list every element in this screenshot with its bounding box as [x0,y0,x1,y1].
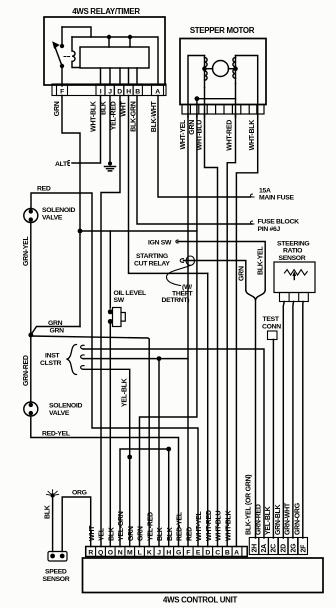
inst hook 2 [81,355,84,359]
svg-text:GRN: GRN [54,101,61,116]
cell dividers main strip [86,547,242,557]
fuse block hook [251,221,254,224]
svg-text:GRN: GRN [128,526,135,541]
svg-text:J: J [157,550,161,557]
4WS relay/timer box [44,17,165,85]
node GRN junction left [28,333,33,338]
svg-text:VALVE: VALVE [42,215,63,222]
svg-text:PIN #6J: PIN #6J [258,226,281,233]
svg-text:RED: RED [37,186,51,193]
svg-text:BLK: BLK [45,505,52,519]
wire pin D [207,273,209,546]
rotated wire labels [23,101,302,541]
svg-text:GRN-ORG: GRN-ORG [295,502,302,535]
svg-text:BLK-YEL: BLK-YEL [258,246,265,275]
wire GRN-RED [30,335,32,402]
svg-text:R: R [88,550,93,557]
svg-text:GRN: GRN [138,526,145,541]
motor rotor [213,61,229,77]
svg-text:H: H [166,550,171,557]
wire IGN SW BLK-YEL [178,242,265,291]
node M tap [127,455,132,460]
wire pin H WHT to D [129,96,208,274]
node switch bottom [60,64,64,68]
svg-text:2G: 2G [290,543,297,553]
wire coil right bottom GRN [197,84,236,118]
svg-text:A: A [234,550,239,557]
svg-text:SENSOR: SENSOR [279,255,306,262]
svg-text:WHT-BLK: WHT-BLK [91,101,98,132]
svg-text:F: F [60,89,64,96]
node rail2-tap2 [128,35,132,39]
wire pin A BLK-WHT to 15A fuse [158,96,251,198]
wire coil left top to WHT-YEL [188,56,205,118]
svg-text:SPEED: SPEED [45,569,67,576]
svg-text:WHT-YEL: WHT-YEL [196,510,203,541]
solenoid valve 1 [24,209,38,223]
svg-text:2F: 2F [300,544,307,553]
control unit 2x cells [249,538,307,555]
15A fuse hook [251,194,254,197]
inst hook 1 [81,345,84,349]
node H tap [166,447,171,452]
node rail2-tap1 [107,35,111,39]
wire WHT-RED lead [235,99,237,117]
alternator connector [68,161,70,166]
wire ORG to pin R [62,497,90,552]
svg-text:TEST: TEST [263,316,280,323]
svg-text:CONN: CONN [262,324,281,331]
test connector [268,331,278,340]
svg-text:IGN SW: IGN SW [148,240,172,247]
svg-text:G: G [176,550,181,557]
svg-text:SW: SW [114,297,125,304]
wire rail2 [72,37,158,84]
svg-text:YEL-RED: YEL-RED [111,101,118,130]
svg-text:OIL LEVEL: OIL LEVEL [114,290,146,297]
svg-text:YEL-GRN: YEL-GRN [118,511,125,541]
starting cut relay hook [167,256,195,286]
svg-text:RED-YEL: RED-YEL [42,431,70,438]
svg-text:GRN: GRN [189,120,196,135]
wire inst line3 to M [83,369,130,546]
dashed link switch-coil [64,56,70,58]
svg-text:GRN: GRN [48,320,63,327]
svg-text:STEPPER MOTOR: STEPPER MOTOR [190,26,255,35]
wire sensor to 2F [302,302,304,539]
svg-text:WHT-BLK: WHT-BLK [249,120,256,151]
svg-text:WHT-BLU: WHT-BLU [216,510,223,541]
svg-text:BLK: BLK [101,101,108,115]
svg-text:GRN-YEL: GRN-YEL [23,235,30,266]
svg-text:A: A [155,89,160,96]
svg-text:BLK-GRN: BLK-GRN [131,101,138,132]
svg-text:L: L [138,550,142,557]
bottom pin letters [88,550,239,557]
node switch top [60,44,64,48]
stepper coil left [202,56,212,88]
svg-text:K: K [147,550,152,557]
svg-text:YEL-RED: YEL-RED [147,512,154,541]
svg-text:WHT: WHT [89,525,96,541]
wire rail1 [62,27,91,37]
wire WHT-BLU to pin C [205,114,218,547]
svg-text:MAIN FUSE: MAIN FUSE [259,195,294,202]
wire pin D YEL-RED jog [101,96,120,547]
svg-text:N: N [118,550,123,557]
svg-text:O: O [108,550,113,557]
wire coil left bottom WHT-BLU [204,88,206,118]
svg-text:BLK-WHT: BLK-WHT [151,101,158,133]
wire test conn to 2C [272,340,274,539]
wire RED rail [31,193,198,547]
connector strip relay [52,84,166,96]
wire START RELAY GRN [184,261,246,291]
wire timer leads to pins [101,68,138,84]
relay coil L1 [72,37,80,68]
svg-text:15A: 15A [259,188,271,195]
wire N H stub [120,449,169,547]
stepper coil right [229,56,238,84]
wire GRN-YEL [30,223,32,336]
svg-text:2A: 2A [261,544,268,553]
svg-text:WHT-RED: WHT-RED [227,120,234,151]
wire pin F GRN [62,96,80,327]
svg-text:Q: Q [98,550,103,557]
wire GRN to oil level sw [109,231,111,308]
wire coil right top to WHT-BLK [236,56,258,118]
wire pin J [158,359,160,547]
svg-text:CLSTR: CLSTR [40,360,62,367]
svg-text:2D: 2D [281,544,288,553]
relay switch contacts [53,27,62,86]
svg-text:YEL-BLK: YEL-BLK [265,506,272,535]
wire WHT-YEL to pin F [187,114,189,547]
connector strip stepper [182,105,264,115]
svg-text:STARTING: STARTING [136,253,168,260]
potentiometer [285,270,308,276]
svg-text:YEL-BLK: YEL-BLK [122,378,129,407]
wire WHT-RED to pin B [227,114,235,547]
svg-text:2C: 2C [271,544,278,553]
wire sensor to 2D [283,302,284,539]
svg-text:B: B [225,550,230,557]
inst hook 3 [81,366,84,370]
svg-text:C: C [215,550,220,557]
oil level switch [108,308,126,327]
svg-text:WHT-BLU: WHT-BLU [197,120,204,151]
wire GRN bus y233 [80,230,197,232]
wire sensor to 2G [292,302,295,539]
svg-text:RATIO: RATIO [283,248,302,255]
wire WHT-BLK to pin A [236,114,257,547]
svg-text:D: D [205,550,210,557]
connector strip control unit [86,547,248,557]
svg-text:SENSOR: SENSOR [43,576,70,583]
wire pin B BLK-GRN to fuse block [137,96,252,225]
svg-text:WHT-BLK: WHT-BLK [225,510,232,541]
wire inst line1 to 2A [83,349,264,538]
svg-text:DETRNT): DETRNT) [162,297,190,304]
svg-text:D: D [117,89,122,96]
wire GRN stepper to pin L [140,114,197,547]
inst cluster brace [67,345,77,375]
svg-text:RED-YEL: RED-YEL [177,511,184,541]
svg-text:SOLENOID: SOLENOID [49,403,82,410]
svg-text:BLK-YEL (OR GRN): BLK-YEL (OR GRN) [246,475,253,535]
svg-text:ALT: ALT [55,161,68,168]
wire inst line2 to F [83,358,188,360]
svg-text:BLK: BLK [167,527,174,541]
ign sw hook [176,240,178,243]
svg-text:VALVE: VALVE [49,410,70,417]
wire taps to timer [109,37,130,47]
svg-text:GRN-BLK: GRN-BLK [275,504,282,535]
svg-text:M: M [127,550,133,557]
2x pin letters [252,543,308,553]
steering ratio sensor box [274,262,315,293]
node GRN stepper [195,96,200,101]
splice symbol [47,490,59,498]
svg-text:CUT RELAY: CUT RELAY [134,261,170,268]
svg-text:4WS CONTROL UNIT: 4WS CONTROL UNIT [163,596,237,605]
svg-text:YEL: YEL [99,527,106,541]
svg-text:GRN-RED: GRN-RED [255,504,262,535]
4WS control unit box [83,558,324,593]
node GRN tap [78,229,83,234]
svg-text:BLK: BLK [108,527,115,541]
relay pin letters [60,89,160,96]
svg-text:BLK: BLK [157,527,164,541]
wire GRN diag + line1 [31,327,80,336]
wire funnel to 2H [246,290,265,538]
wiper arrow [293,272,296,280]
stepper motor box [180,39,266,105]
wire oil sw to pin O [109,320,111,547]
svg-text:J: J [108,89,112,96]
svg-text:B: B [135,89,140,96]
wire GRN line2 to pin K [31,336,149,547]
node J tap [157,356,162,361]
svg-text:WHT: WHT [121,101,128,117]
svg-text:ORG: ORG [72,490,87,497]
svg-text:GRN: GRN [50,328,65,335]
sensor connector [280,293,309,302]
ground [105,161,116,171]
solenoid valve 2 [24,402,38,416]
svg-text:INST: INST [45,353,60,360]
svg-text:GRN-RED: GRN-RED [23,355,30,386]
wire BLK speed sensor [52,496,54,552]
svg-text:GRN-WHT: GRN-WHT [285,502,292,535]
svg-text:SOLENOID: SOLENOID [42,207,75,214]
svg-text:F: F [186,550,190,557]
svg-text:RED: RED [186,527,193,541]
wire pin J BLK to ground [109,96,111,164]
svg-text:WHT-RED: WHT-RED [206,510,213,541]
svg-text:2H: 2H [252,544,259,553]
wire RED-YEL to pin G [31,416,179,547]
timer module U1 [80,47,149,68]
svg-text:H: H [126,89,131,96]
svg-text:4WS RELAY/TIMER: 4WS RELAY/TIMER [72,7,140,16]
wire pin I WHT-BLK to ALT [72,96,101,164]
speed sensor [48,552,67,562]
svg-text:FUSE BLOCK: FUSE BLOCK [258,219,300,226]
svg-text:WHT-YEL: WHT-YEL [180,119,187,150]
svg-text:GRN: GRN [239,266,246,281]
svg-text:STEERING: STEERING [277,241,309,248]
